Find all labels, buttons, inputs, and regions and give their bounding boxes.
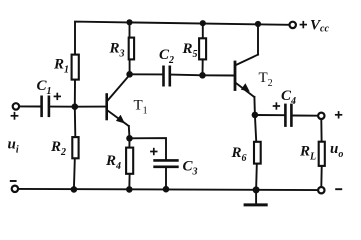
wire R2 bottom to ground rail: [73, 159, 76, 189]
wire R5 bottom lead: [202, 60, 204, 75]
wire T2 emitter node to R6: [255, 115, 256, 141]
wire collector node to C2: [130, 73, 163, 75]
polarity plus sign at output: [335, 111, 342, 118]
wire emitter node to C3: [130, 138, 167, 159]
wire bottom ground rail: [18, 189, 318, 190]
wire top power rail: [75, 22, 289, 54]
junction dot T1 emitter node: [126, 135, 133, 142]
capacitor C2: [164, 67, 170, 85]
resistor R4: [126, 148, 133, 174]
wire C1 to base node: [50, 106, 75, 108]
transistor T1: [107, 75, 130, 138]
ground: [245, 190, 266, 205]
resistor R6: [254, 142, 261, 164]
junction dot R6 bottom: [253, 186, 260, 193]
junction dot R4 bottom: [126, 186, 133, 193]
polarity plus sign of C1: [54, 93, 61, 100]
terminal output bottom: [318, 187, 324, 193]
wire R4 bottom lead: [128, 175, 130, 190]
wire C3 bottom lead: [165, 168, 167, 189]
polarity plus sign of C4: [273, 102, 280, 109]
terminal +Vcc: [290, 22, 296, 28]
transistor T2: [235, 55, 258, 115]
capacitor C3: [155, 160, 178, 166]
wire C2 to T2 base node: [171, 74, 202, 77]
wire R3 bottom lead: [129, 60, 131, 74]
junction dot R3 top: [126, 19, 132, 25]
junction dot T2 base node: [199, 72, 206, 79]
wire base node to T1 base: [75, 106, 106, 108]
wire emitter node to R4: [128, 138, 130, 147]
polarity plus sign at input: [11, 112, 19, 120]
wire input to C1: [19, 105, 40, 107]
junction dot R2 bottom: [71, 186, 78, 193]
wire C4 to output terminal: [293, 115, 318, 117]
capacitor C4: [285, 105, 291, 126]
terminal output top: [318, 113, 324, 119]
wire R5 top lead: [202, 23, 204, 37]
resistor R3: [129, 38, 134, 60]
wire base node to R2 top: [74, 107, 77, 137]
junction dot T1 base node: [72, 103, 79, 110]
resistor R1: [72, 55, 79, 80]
terminal input bottom: [12, 186, 18, 192]
wire output terminal to RL: [320, 119, 322, 141]
plus sign of Vcc label: [300, 21, 307, 28]
polarity minus sign at output: [335, 188, 342, 190]
resistor RL: [319, 142, 325, 166]
terminal input top: [13, 103, 19, 109]
resistor R2: [72, 137, 78, 158]
capacitor C1: [42, 97, 49, 116]
wire base node to T2 base: [203, 74, 234, 76]
junction dot R5 top: [200, 20, 206, 26]
wire R6 bottom lead: [255, 165, 258, 190]
junction dot C3 bottom: [163, 186, 170, 193]
wire RL bottom lead: [320, 167, 322, 187]
wire T2 collector to rail: [257, 24, 259, 55]
polarity plus sign of C3: [150, 148, 157, 155]
polarity minus sign at input: [10, 180, 17, 182]
wire R3 top lead: [129, 22, 131, 36]
wire R1 bottom to base node: [74, 81, 76, 107]
resistor R5: [199, 38, 206, 59]
junction dot T1 collector node: [126, 71, 133, 78]
wire emitter node to C4: [255, 114, 284, 116]
junction dot T2 emitter node: [252, 112, 259, 119]
junction dot T2 collector at rail: [255, 21, 261, 27]
